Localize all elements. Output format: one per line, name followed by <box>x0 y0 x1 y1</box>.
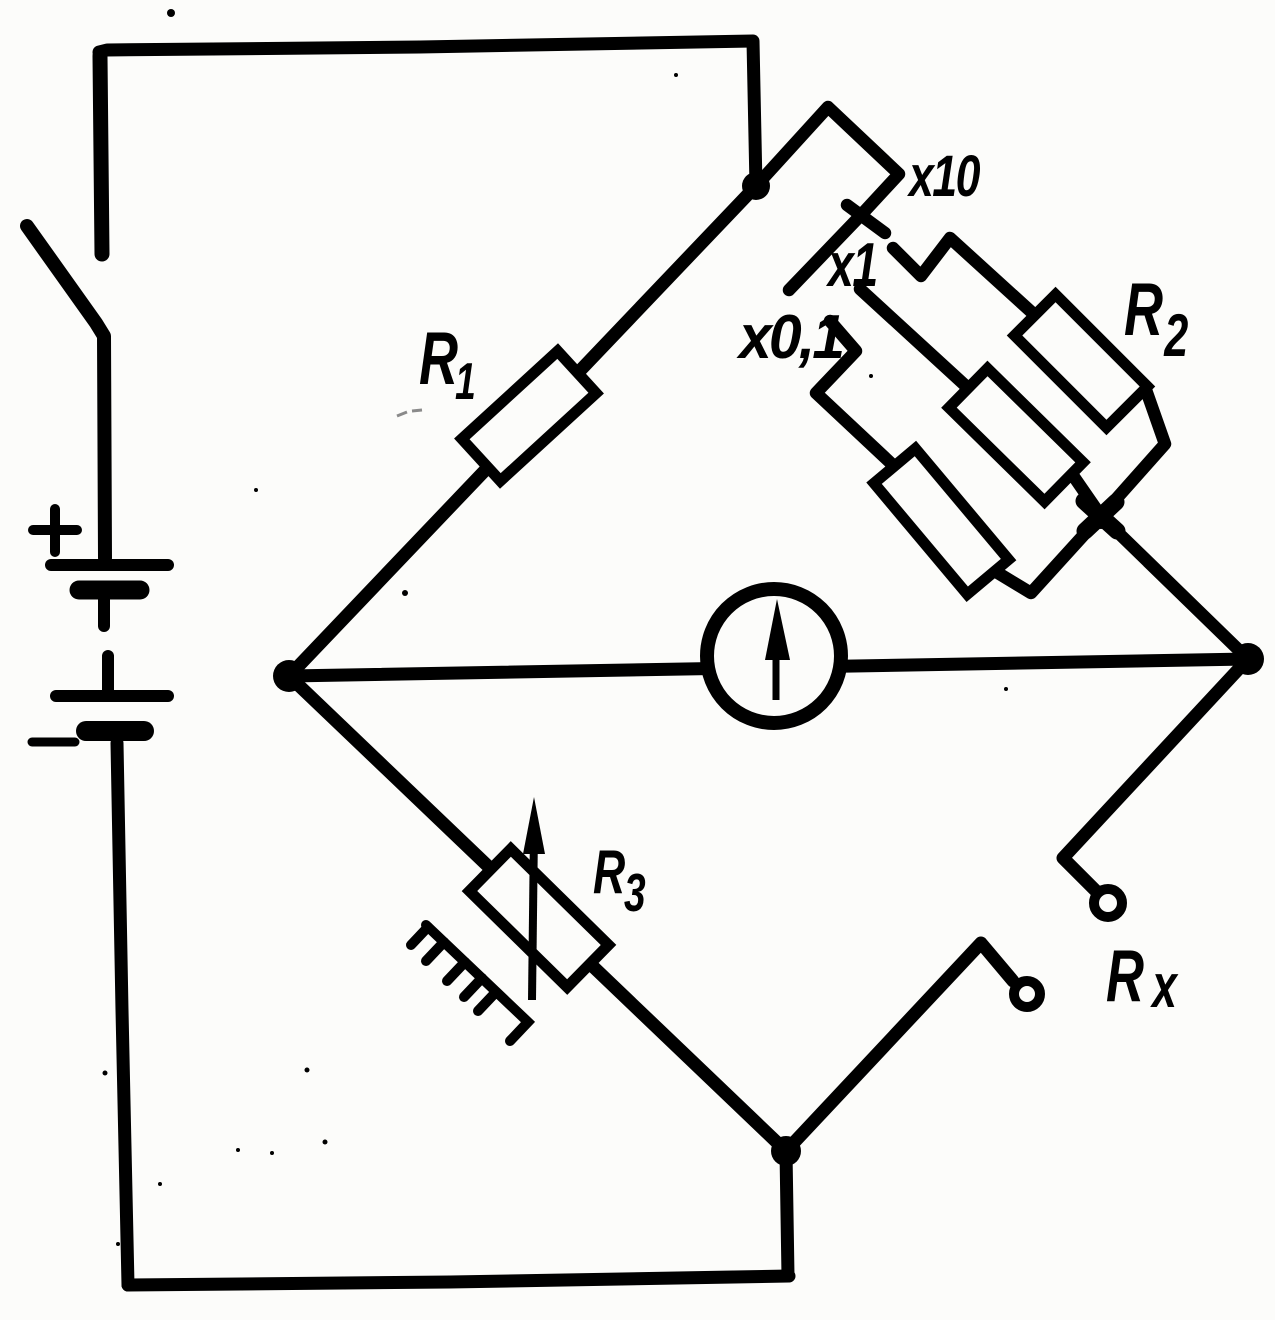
label x0,1 <box>736 302 842 372</box>
wire exit of R2b to junction <box>1072 474 1101 516</box>
wire exit of R2a to junction <box>1101 390 1165 516</box>
wire zigzag to resistor R2a (x1 tap) <box>893 238 1038 318</box>
stub below cell 1 <box>98 598 110 626</box>
contact stud x1 (crossing segment) <box>847 205 885 233</box>
switch S1 blade <box>27 226 105 558</box>
resistor R3 body (variable) <box>469 849 608 987</box>
node top <box>742 172 770 200</box>
wire diagonal to middle resistor R2b <box>860 289 968 388</box>
stub above cell 2 <box>102 656 114 692</box>
R3 slider hatch <box>411 925 528 1041</box>
label x10 <box>906 143 980 208</box>
resistor R2c body (x0.1) <box>874 448 1009 594</box>
wire bottom vertical to bottom node <box>786 1152 788 1276</box>
svg-text:x1: x1 <box>825 229 876 299</box>
wire galvanometer branch (left node to right node) <box>289 659 1248 676</box>
wire arm R3 (left node to bottom node) <box>289 676 786 1151</box>
terminal Rx upper <box>1094 889 1122 917</box>
wire Rx top: right node to terminal <box>1063 659 1248 891</box>
wire top horizontal from battery branch to top node <box>99 41 756 186</box>
label x1 <box>825 229 876 299</box>
wire battery to bottom-left corner <box>117 743 128 1285</box>
node bottom <box>771 1136 801 1166</box>
junction X-blob of R2 network <box>1084 501 1117 531</box>
faint pencil scribble under R1 <box>397 410 422 416</box>
label R3 <box>593 838 646 923</box>
battery B <box>32 509 168 742</box>
label Rx <box>1106 936 1179 1021</box>
cell 1 short thick plate <box>79 581 140 600</box>
resistor R2b body (middle) <box>949 368 1083 501</box>
wire prong and run to resistor R2c (x0.1 tap) <box>816 321 895 467</box>
wire R2 arm switch Λ with tail (top node, x10 prong) <box>756 107 899 290</box>
cell 1 long plate <box>51 559 168 571</box>
terminal Rx lower <box>1014 981 1040 1007</box>
label R2 <box>1124 267 1188 369</box>
minus sign <box>32 738 75 747</box>
wire Rx bottom: bottom node to terminal <box>786 943 1013 1151</box>
plus sign <box>33 509 77 552</box>
label R1 <box>419 316 476 410</box>
paper specks <box>103 9 1009 1246</box>
svg-text:x10: x10 <box>906 143 980 208</box>
resistor R2a body (x1) <box>1015 295 1148 428</box>
wire junction to right node <box>1101 516 1248 659</box>
node left <box>273 660 305 692</box>
wire left vertical upper (to switch fixed contact) <box>100 56 102 254</box>
svg-text:x0,1: x0,1 <box>736 302 842 372</box>
cell 2 short thick plate <box>86 721 144 741</box>
wire bottom horizontal <box>128 1276 789 1285</box>
R3 arrow (variable) <box>532 830 534 1000</box>
node right <box>1232 643 1264 675</box>
cell 2 long plate <box>56 690 168 702</box>
galvanometer needle <box>773 650 780 700</box>
wire arm R1 (left node to top node) <box>289 186 756 676</box>
galvanometer G <box>707 589 841 723</box>
resistor R1 body <box>462 351 596 481</box>
wire exit of R2c to junction <box>993 516 1101 593</box>
